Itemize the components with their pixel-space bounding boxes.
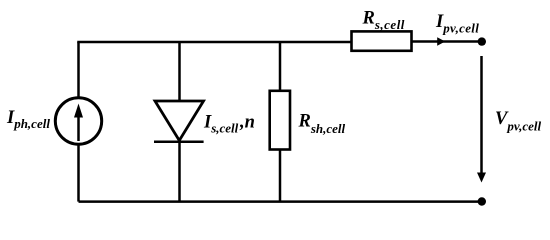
- wire voltage arrow shaft: [480, 56, 483, 174]
- arrow current direction I_pv: [437, 37, 445, 45]
- wire diode branch lower: [178, 142, 181, 202]
- svg-text:Is,cell: Is,cell: [203, 113, 239, 136]
- current source I_ph,cell: [55, 98, 101, 144]
- resistor R_s,cell: [352, 31, 412, 50]
- wire left branch upper: [77, 42, 80, 98]
- svg-text:Rs,cell: Rs,cell: [362, 8, 405, 32]
- wire shunt branch upper: [279, 42, 282, 91]
- diode D1: [154, 101, 204, 142]
- svg-text:Vpv,cell: Vpv,cell: [495, 109, 542, 133]
- wire bottom rail: [79, 200, 482, 203]
- wire top rail: [79, 41, 352, 42]
- node positive terminal: [478, 37, 486, 45]
- svg-text:,n: ,n: [239, 113, 255, 133]
- wire left branch lower: [77, 144, 80, 202]
- svg-text:Ipv,cell: Ipv,cell: [435, 12, 479, 36]
- resistor R_sh,cell: [270, 91, 290, 150]
- svg-text:Iph,cell: Iph,cell: [6, 108, 50, 131]
- wire resistor to terminal: [412, 40, 482, 43]
- svg-text:Rsh,cell: Rsh,cell: [298, 111, 346, 135]
- node negative terminal: [478, 197, 486, 205]
- wire diode branch upper: [178, 42, 181, 101]
- wire shunt branch lower: [279, 150, 282, 202]
- arrow V_pv down: [477, 173, 486, 183]
